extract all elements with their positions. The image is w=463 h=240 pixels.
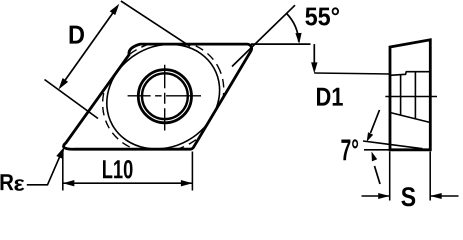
L10 extension line right — [191, 152, 193, 191]
S dimension line right — [430, 195, 458, 197]
hidden dashed periphery ellipse (bottom face, hidden line) — [82, 19, 244, 174]
D1 arrow line — [313, 44, 315, 64]
hole countersink outer circle — [138, 70, 191, 123]
S arrowhead left — [378, 193, 390, 199]
D1 reference line to side view — [314, 73, 390, 74]
L10 arrowhead left — [63, 180, 75, 186]
label L10 — [103, 160, 133, 179]
S dimension line left — [362, 195, 390, 197]
S extension line left — [389, 152, 391, 201]
dim D dimension line — [62, 8, 117, 85]
S extension line right — [429, 152, 431, 201]
label S — [401, 187, 415, 206]
side view hole wall left — [400, 75, 402, 116]
centerline vertical — [164, 65, 166, 131]
side view outline — [390, 40, 430, 150]
dim D arrowhead lower — [59, 78, 69, 90]
7 deg lower leader — [375, 166, 381, 184]
hole inner circle — [142, 73, 188, 119]
dim D extension line lower — [45, 80, 99, 119]
55 deg arc — [287, 13, 299, 41]
side view hole wall right — [414, 72, 416, 119]
7 deg lower arrowhead — [372, 152, 378, 162]
L10 arrowhead right — [181, 180, 193, 186]
7 deg clearance line — [363, 141, 423, 149]
label 55deg — [305, 7, 339, 25]
L10 extension line left — [62, 153, 64, 191]
Re corner radius leader — [27, 156, 60, 185]
label D1 — [317, 88, 343, 106]
7 deg upper arrowhead — [367, 132, 374, 142]
side view countersink line — [390, 72, 430, 76]
7 deg upper leader — [371, 110, 380, 133]
label D — [70, 26, 84, 44]
bottom edge extension left — [364, 149, 390, 151]
insert body outline (55-deg rhombus, rounded corners, flared corner at left vertex) — [64, 44, 252, 149]
Re leader arrowhead — [56, 147, 64, 159]
55 deg extension line horizontal — [251, 43, 311, 45]
55 deg arc arrowhead — [295, 33, 301, 44]
dim D extension line upper — [121, 1, 190, 46]
label R epsilon — [1, 174, 14, 190]
S arrowhead right — [430, 193, 442, 199]
side view hole bottom hidden slant line — [390, 113, 430, 123]
L10 dimension line — [63, 182, 193, 184]
55 deg extension line slanted — [232, 5, 295, 66]
inscribed ellipse (top face periphery, tangent to edges) — [88, 24, 239, 169]
side view mid horizontal line — [385, 96, 437, 98]
centerline horizontal — [128, 95, 201, 97]
label 7deg — [341, 139, 358, 160]
dim D arrowhead upper — [110, 4, 120, 15]
D1 arrowhead — [311, 62, 317, 73]
